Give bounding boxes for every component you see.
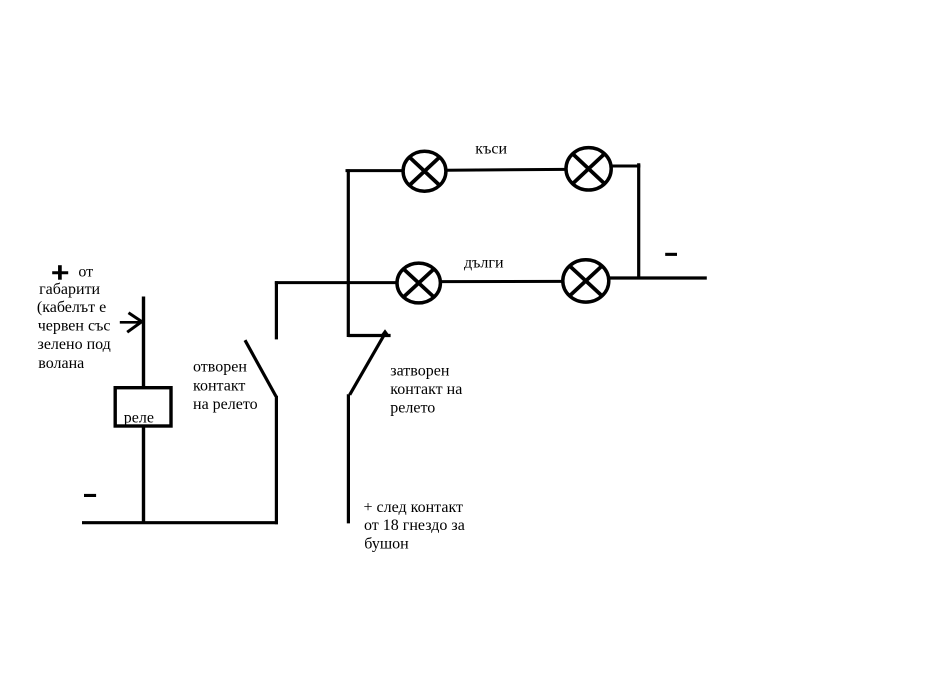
svg-text:затворен: затворен bbox=[390, 362, 450, 379]
svg-text:дълги: дълги bbox=[464, 254, 504, 271]
svg-text:червен със: червен със bbox=[38, 317, 111, 334]
closed contact: blade bbox=[350, 334, 385, 395]
svg-text:отворен: отворен bbox=[193, 359, 247, 376]
arrow pointing to relay wire bbox=[120, 313, 142, 333]
relay box bbox=[115, 388, 171, 426]
wire: top feed from bus to lamp L1 bbox=[346, 169, 404, 172]
closed contact: bottom lead bbox=[347, 394, 350, 523]
open contact: top stub bbox=[275, 281, 278, 339]
open contact: blade bbox=[245, 340, 276, 396]
lamp L4 (дълги, right) bbox=[563, 260, 609, 302]
lamp L1 (къси, left) bbox=[403, 151, 446, 191]
open contact: bottom lead bbox=[275, 396, 278, 524]
wire: right vertical bus bbox=[637, 163, 640, 279]
svg-text:волана: волана bbox=[38, 355, 84, 372]
svg-text:бушон: бушон bbox=[364, 536, 409, 553]
closed contact: horizontal from bus bbox=[348, 334, 390, 337]
svg-text:зелено под: зелено под bbox=[38, 336, 111, 353]
svg-text:+ след контакт: + след контакт bbox=[364, 499, 464, 516]
plus sign (от габарити) bbox=[52, 265, 68, 280]
wire: L2 to top-right corner bbox=[611, 165, 640, 168]
wire: L3 to L4 bbox=[440, 280, 563, 283]
svg-text:(кабелът е: (кабелът е bbox=[37, 299, 106, 316]
svg-text:релето: релето bbox=[390, 400, 435, 417]
relay top lead bbox=[142, 297, 145, 388]
lamp L2 (къси, right) bbox=[566, 148, 611, 190]
minus sign left bbox=[84, 494, 96, 497]
svg-text:габарити: габарити bbox=[39, 281, 100, 298]
svg-text:контакт на: контакт на bbox=[390, 381, 462, 398]
wire: L4 to right end bbox=[609, 276, 707, 279]
relay bottom lead bbox=[142, 426, 145, 524]
svg-text:от: от bbox=[78, 263, 93, 280]
lamp L3 (дълги, left) bbox=[397, 263, 440, 303]
wire: L1 to L2 bbox=[446, 168, 567, 172]
minus sign right bbox=[665, 253, 677, 256]
svg-text:реле: реле bbox=[124, 410, 154, 427]
svg-text:къси: къси bbox=[475, 141, 507, 158]
wire: lamp row 2 left segment bbox=[275, 281, 398, 284]
svg-text:от 18 гнездо за: от 18 гнездо за bbox=[364, 517, 465, 534]
svg-text:контакт: контакт bbox=[193, 377, 245, 394]
bottom wire (ground rail) bbox=[82, 521, 278, 524]
closed contact: arrow tip bbox=[381, 329, 390, 335]
wire: left vertical bus bbox=[347, 169, 350, 337]
svg-text:на релето: на релето bbox=[193, 396, 258, 413]
